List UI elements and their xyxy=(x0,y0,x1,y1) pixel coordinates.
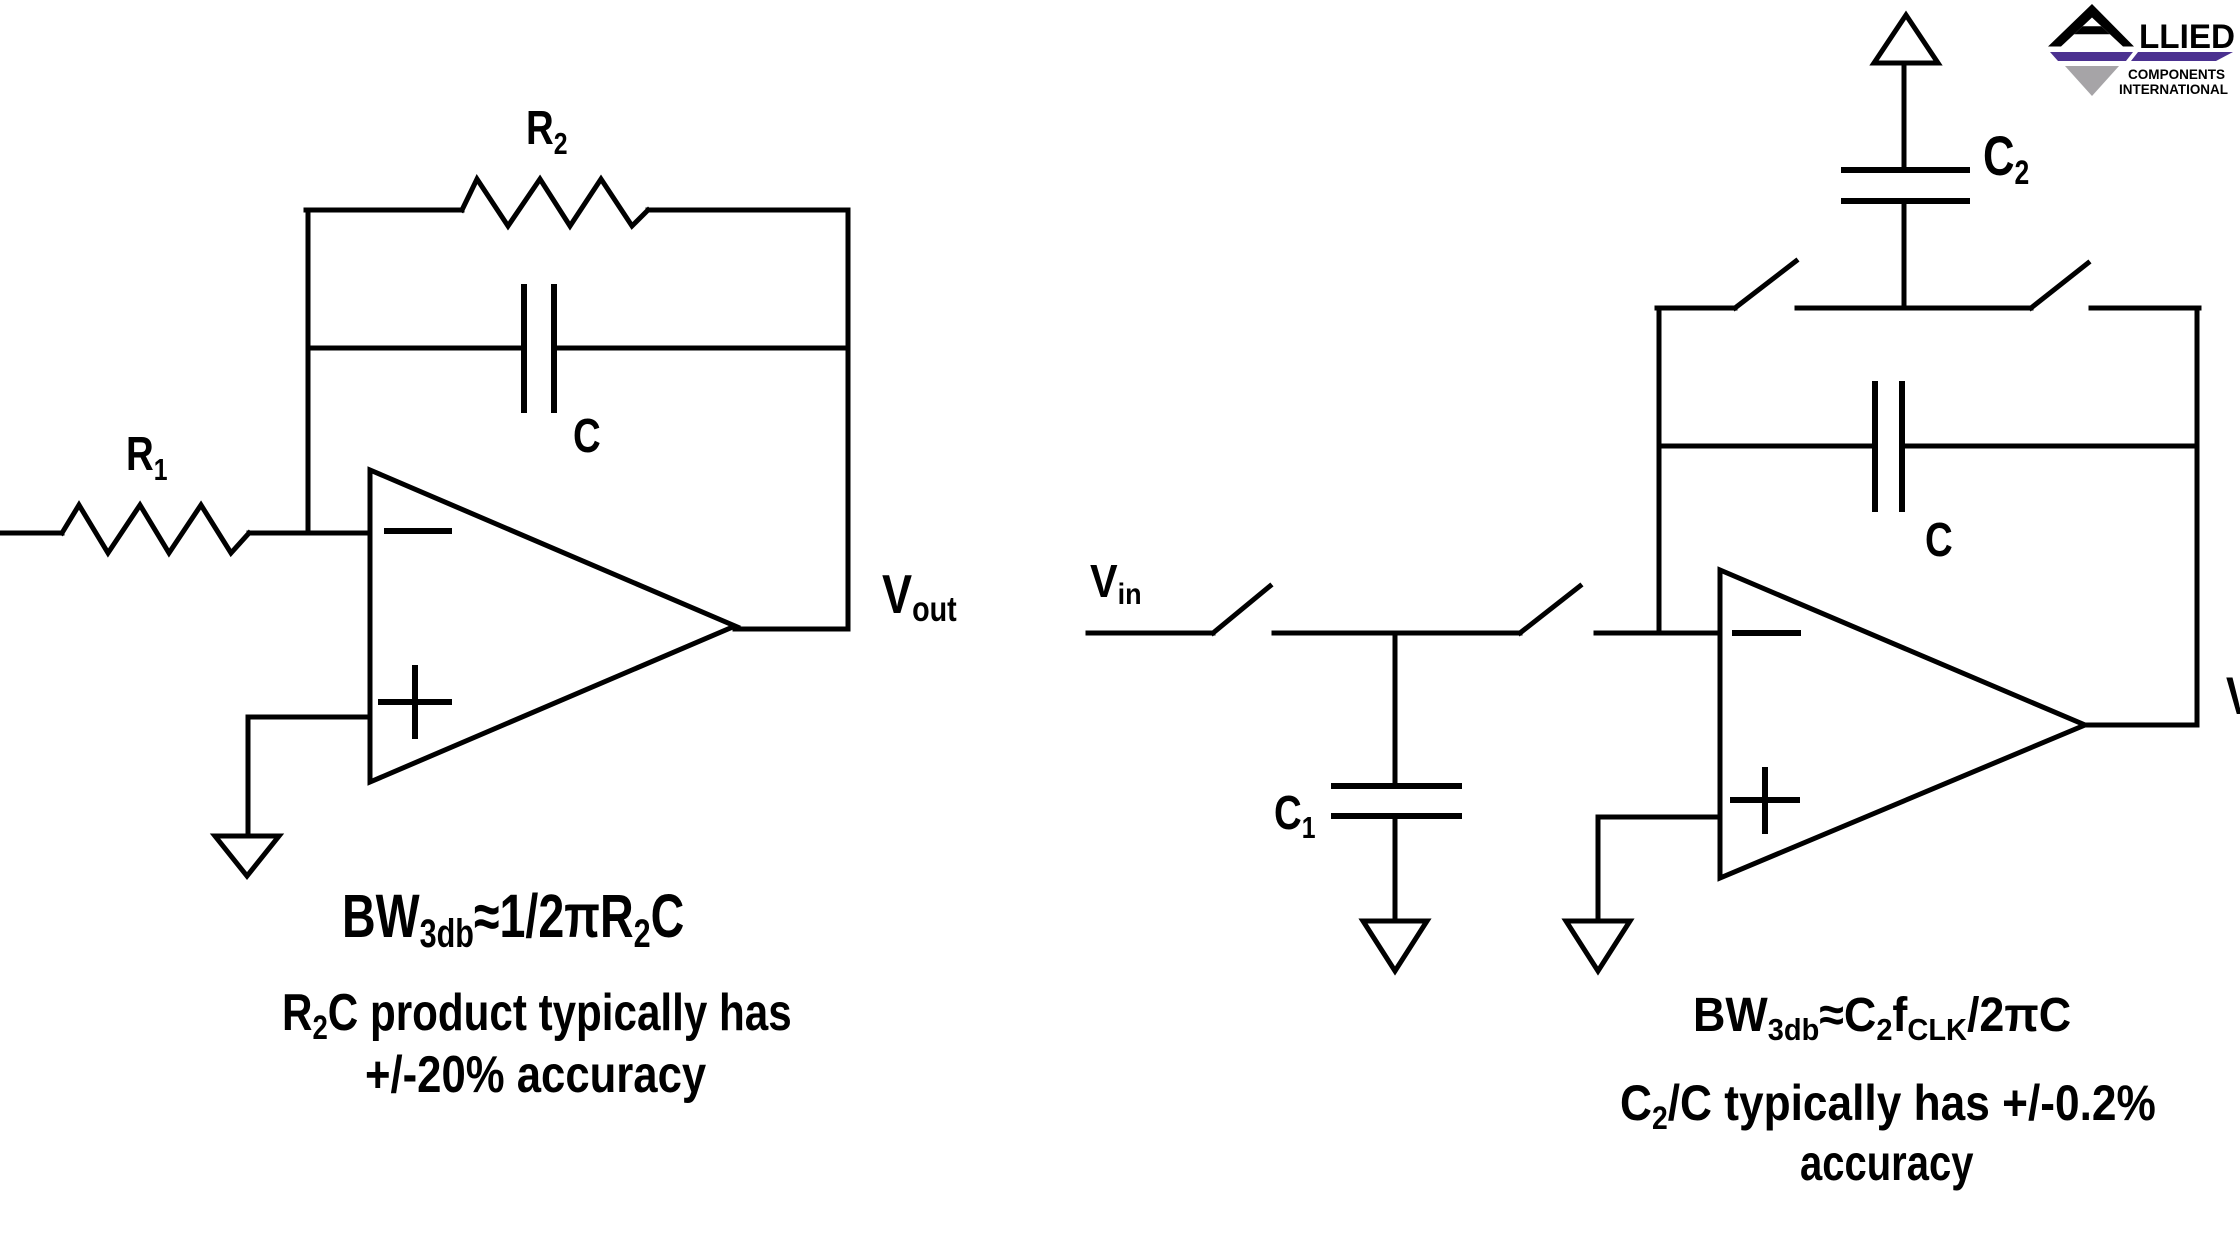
op-amp A1 body xyxy=(370,470,735,782)
svg-text:C2/C typically has +/-0.2%: C2/C typically has +/-0.2% xyxy=(1620,1076,2156,1137)
svg-text:R1: R1 xyxy=(126,428,168,487)
wire R1 to inverting input node xyxy=(249,531,370,536)
text R2C product typically has xyxy=(282,984,792,1047)
resistor R2 xyxy=(462,179,648,226)
wire S2 to inverting input xyxy=(1596,631,1720,636)
logo Allied A mark xyxy=(2048,4,2134,47)
svg-text:+/-20% accuracy: +/-20% accuracy xyxy=(365,1047,706,1104)
capacitor C1 stem top xyxy=(1393,633,1398,786)
wire feedback left vertical xyxy=(306,210,311,533)
capacitor C1 plates xyxy=(1334,783,1459,789)
svg-text:accuracy: accuracy xyxy=(1800,1135,1973,1191)
label R2 xyxy=(526,102,568,161)
switch S4 lever xyxy=(2031,263,2088,308)
wire C2 stem bottom xyxy=(1902,201,1907,308)
svg-text:LLIED: LLIED xyxy=(2139,18,2235,56)
label Vin xyxy=(1090,556,1142,611)
op-amp A2 body xyxy=(1720,570,2085,878)
logo gray triangle xyxy=(2065,66,2119,96)
svg-text:Vout: Vout xyxy=(2226,667,2240,730)
label C1 xyxy=(1274,787,1316,845)
svg-text:R2: R2 xyxy=(526,102,568,161)
wire S1 to C1 node to S2 xyxy=(1274,631,1520,636)
wire C2 stem top xyxy=(1902,63,1907,170)
op-amp A2 minus marker xyxy=(1735,630,1798,636)
wire output right circuit xyxy=(2085,723,2197,728)
wire switch row middle xyxy=(1797,306,2031,311)
op-amp A2 plus marker xyxy=(1733,797,1797,803)
logo purple band left xyxy=(2050,52,2133,61)
wire non-inverting right to ground xyxy=(1598,817,1720,921)
op-amp A1 minus marker xyxy=(387,528,449,534)
wire cap C left xyxy=(308,346,524,351)
capacitor C1 stem bottom xyxy=(1393,816,1398,921)
svg-text:BW3db≈C2fCLK/2πC: BW3db≈C2fCLK/2πC xyxy=(1693,988,2071,1048)
wire feedback right vertical right circuit xyxy=(2195,308,2200,725)
svg-text:BW3db≈1/2πR2C: BW3db≈1/2πR2C xyxy=(342,882,684,956)
text accuracy right xyxy=(1800,1135,1973,1191)
ground C1 xyxy=(1363,921,1427,971)
wire non-inverting input to ground xyxy=(248,717,370,836)
wire output left circuit xyxy=(735,627,848,632)
svg-text:C: C xyxy=(1925,514,1953,567)
capacitor C right plates xyxy=(1872,384,1878,509)
svg-text:Vin: Vin xyxy=(1090,556,1142,611)
text 20 percent accuracy xyxy=(365,1047,706,1104)
wire feedback right vertical xyxy=(846,210,851,629)
ground right op-amp xyxy=(1566,921,1630,971)
wire cap C right xyxy=(554,346,848,351)
capacitor C2 plates xyxy=(1844,198,1967,204)
wire feedback left vertical right circuit xyxy=(1657,308,1662,633)
label C2 xyxy=(1983,125,2029,192)
capacitor C plates xyxy=(521,287,527,410)
wire feedback top left xyxy=(306,208,462,213)
ground left op-amp xyxy=(215,836,279,876)
svg-text:COMPONENTS: COMPONENTS xyxy=(2128,67,2225,82)
wire input to R1 xyxy=(0,531,62,536)
formula BW3db approx 1/2piR2C xyxy=(342,882,684,956)
up arrow terminal xyxy=(1874,15,1938,63)
op-amp A1 plus marker xyxy=(381,699,449,705)
wire cap C row left xyxy=(1659,444,1875,449)
wire feedback top right xyxy=(648,208,848,213)
svg-text:Vout: Vout xyxy=(882,563,957,629)
label R1 xyxy=(126,428,168,487)
label C feedback xyxy=(573,410,601,463)
switch S2 lever xyxy=(1520,586,1580,633)
wire switch row left xyxy=(1657,306,1735,311)
text C2/C typically has 0.2 percent xyxy=(1620,1076,2156,1137)
label Vout right clipped xyxy=(2226,667,2240,730)
wire cap C row right xyxy=(1902,444,2197,449)
logo purple band right xyxy=(2131,52,2233,61)
label C right xyxy=(1925,514,1953,567)
svg-text:INTERNATIONAL: INTERNATIONAL xyxy=(2119,82,2228,97)
svg-text:C1: C1 xyxy=(1274,787,1316,845)
label Vout left xyxy=(882,563,957,629)
switch S1 lever xyxy=(1213,586,1270,633)
wire Vin lead xyxy=(1088,631,1213,636)
svg-text:C: C xyxy=(573,410,601,463)
resistor R1 xyxy=(62,505,249,553)
wire switch row right xyxy=(2091,306,2199,311)
svg-text:R2C product typically has: R2C product typically has xyxy=(282,984,792,1047)
formula BW3db approx C2fCLK/2piC xyxy=(1693,988,2071,1048)
svg-text:C2: C2 xyxy=(1983,125,2029,192)
switch S3 lever xyxy=(1735,261,1796,308)
